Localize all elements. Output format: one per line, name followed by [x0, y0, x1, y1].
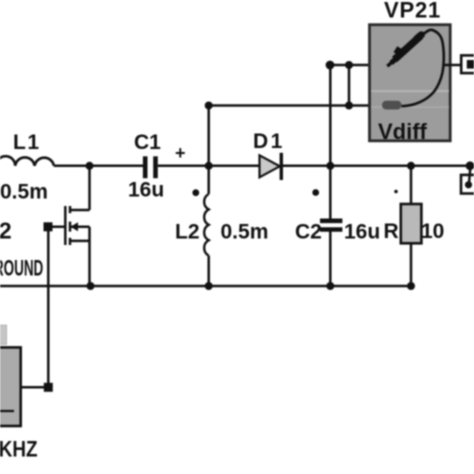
probe tip wire	[330, 64, 390, 67]
wire pulse source to gate node	[21, 386, 48, 389]
svg-text:10: 10	[421, 220, 444, 243]
resistor R	[384, 166, 445, 286]
capacitor C1	[128, 131, 186, 202]
pulse source V1	[0, 325, 38, 462]
inductor L2	[175, 166, 268, 286]
capacitor C2	[295, 166, 380, 286]
svg-text:R: R	[384, 220, 399, 243]
svg-text:L2: L2	[175, 221, 200, 244]
svg-text:0.5m: 0.5m	[221, 221, 269, 244]
corner dot	[326, 61, 335, 70]
probe ground clip	[382, 101, 402, 110]
junction on clip wire	[345, 102, 353, 110]
node A: L1 / M2 drain junction	[86, 162, 94, 170]
transistor M2 (MOSFET)	[0, 166, 89, 286]
svg-text:C2: C2	[295, 221, 322, 244]
svg-text:0.5m: 0.5m	[0, 181, 48, 204]
svg-text:+: +	[175, 143, 186, 163]
wire L1 to C1	[54, 165, 143, 168]
square junction at gate wire	[44, 383, 53, 392]
wire D1 to output port	[283, 165, 470, 168]
wire node B up to probe clip	[207, 106, 210, 166]
svg-text:2: 2	[0, 218, 12, 244]
short vertical tip-to-clip wire	[348, 65, 351, 106]
wire gate down to pulse source	[47, 227, 50, 387]
probe clip wire	[209, 104, 383, 107]
junction M2 source / bottom rail	[87, 282, 95, 290]
probe VP21 box	[370, 0, 451, 144]
junction on tip wire	[345, 61, 353, 69]
node C: D1 cathode / C2 / probe junction	[326, 162, 334, 170]
diode D1	[253, 130, 285, 180]
probe cable	[402, 30, 444, 106]
svg-text:VP21: VP21	[384, 0, 441, 23]
node B: C1 / L2 / D1 anode junction	[205, 162, 213, 170]
junction R / bottom rail	[407, 282, 415, 290]
bottom rail wire	[0, 285, 411, 288]
node D: R top junction	[407, 162, 415, 170]
gate lead wire	[48, 226, 65, 229]
output port (right, on rail)	[461, 161, 474, 193]
svg-text:Vdiff: Vdiff	[378, 119, 428, 144]
junction L2 / bottom rail	[205, 282, 213, 290]
cable exit to port	[444, 64, 462, 67]
inductor L1	[0, 131, 54, 204]
corner dot	[205, 102, 213, 110]
svg-text:16u: 16u	[344, 221, 380, 244]
probe output port (top right)	[461, 55, 474, 73]
svg-text:ROUND: ROUND	[0, 255, 43, 280]
wire node C up to probe tip	[329, 65, 332, 166]
svg-text:L1: L1	[13, 131, 41, 154]
svg-text:C1: C1	[134, 131, 161, 154]
wire C1 to D1	[158, 165, 260, 168]
probe body (pen)	[387, 30, 461, 106]
junction C2 / bottom rail	[326, 282, 334, 290]
svg-text:16u: 16u	[128, 179, 164, 202]
svg-text:D1: D1	[253, 130, 285, 153]
gate square junction	[44, 222, 53, 231]
svg-text:KHZ: KHZ	[0, 437, 38, 462]
